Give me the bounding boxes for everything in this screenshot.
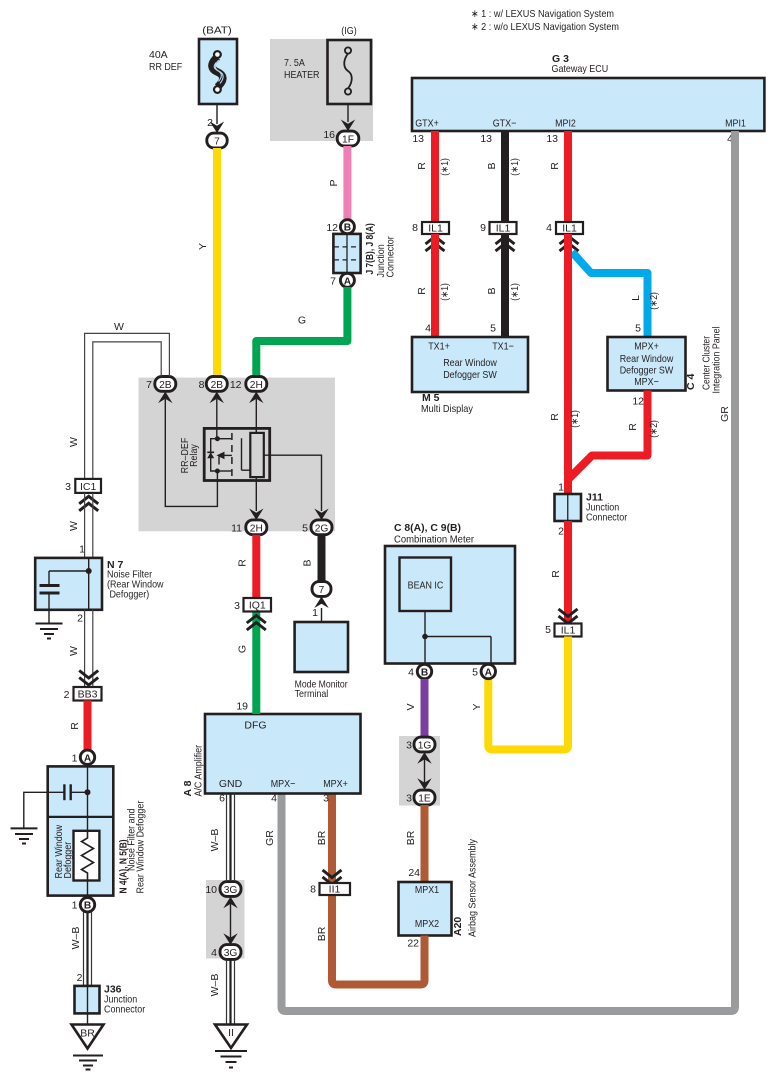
svg-text:Connector: Connector <box>104 1004 146 1016</box>
svg-text:(IG): (IG) <box>341 25 356 37</box>
svg-text:R: R <box>627 423 639 431</box>
pin 6 GND <box>219 793 225 805</box>
ground triangle II <box>215 1025 247 1049</box>
connector 8 IL1 <box>412 222 449 251</box>
pin 2 J36 <box>77 972 83 984</box>
wire B black IL1 to TX1- <box>486 234 521 337</box>
wire G green from junction to relay <box>256 287 347 377</box>
svg-text:L: L <box>630 295 642 301</box>
svg-text:5: 5 <box>490 323 496 335</box>
BEAN IC <box>400 558 452 612</box>
svg-text:1G: 1G <box>418 741 432 752</box>
fuse 7.5A HEATER <box>284 40 371 104</box>
svg-text:R: R <box>549 413 561 421</box>
component A8 A/C Amplifier <box>182 714 361 797</box>
svg-text:19: 19 <box>236 701 248 713</box>
svg-text:GND: GND <box>219 778 243 790</box>
svg-text:IL1: IL1 <box>562 223 577 235</box>
svg-text:MPX2: MPX2 <box>415 918 439 930</box>
wire relay to 5 2G <box>264 455 329 520</box>
svg-text:Defogger SW: Defogger SW <box>620 365 674 377</box>
wire fuse to connector 1F with arrowhead <box>341 104 355 131</box>
relay contact plate and rectangle <box>242 428 264 480</box>
svg-text:22: 22 <box>407 938 419 950</box>
svg-text:Defogger: Defogger <box>62 841 74 878</box>
svg-text:Terminal: Terminal <box>295 688 329 700</box>
svg-text:1: 1 <box>72 752 78 764</box>
svg-text:2H: 2H <box>250 380 263 391</box>
wire arrows between 1G and 1E <box>417 752 431 790</box>
wire L blue to C4 MPX+ <box>572 252 660 337</box>
wire R red GTX+ to IL1 <box>416 131 451 222</box>
connector 5 IL1 lower <box>545 609 581 637</box>
svg-text:A: A <box>344 276 352 287</box>
svg-text:5: 5 <box>302 522 308 534</box>
relay armature dashed line and arrow <box>217 433 232 477</box>
pin 4 MPX- <box>271 793 277 805</box>
svg-text:Combination Meter: Combination Meter <box>394 534 474 546</box>
svg-text:MPX1: MPX1 <box>415 884 439 896</box>
connector oval 10 3G <box>205 882 241 897</box>
pin 13 MPI2 <box>546 133 558 145</box>
svg-text:IL1: IL1 <box>428 223 443 235</box>
capacitor in N7 <box>40 571 60 623</box>
svg-text:MPX−: MPX− <box>271 778 296 790</box>
pin 1 circle B defogger <box>72 898 95 912</box>
svg-text:MPX+: MPX+ <box>634 341 659 353</box>
svg-text:12: 12 <box>632 396 644 408</box>
svg-text:Defogger): Defogger) <box>107 589 149 601</box>
svg-text:4: 4 <box>425 323 431 335</box>
svg-text:Integration Panel: Integration Panel <box>711 327 723 394</box>
svg-text:3: 3 <box>234 600 240 612</box>
wire R red C4 MPX- branch to J11 <box>568 391 660 480</box>
svg-text:W: W <box>68 437 80 447</box>
svg-text:16: 16 <box>323 129 335 141</box>
pin 8 connector oval 2B <box>199 377 228 392</box>
wire 12 2H to relay contact <box>255 399 257 433</box>
component C8(A) C9(B) Combination Meter labels <box>394 522 474 546</box>
gray panel connector pair 3G 3G <box>206 880 245 959</box>
svg-text:B: B <box>344 223 351 234</box>
wire GR gray from MPI1 down and across bottom to A8 MPX- <box>264 131 735 1011</box>
svg-text:(∗2): (∗2) <box>648 420 660 438</box>
svg-text:1: 1 <box>312 607 318 619</box>
svg-text:B: B <box>486 162 498 169</box>
pin 2 N7 <box>77 613 83 625</box>
wire relay contact to 11 2H <box>249 481 263 521</box>
wire internal N7 <box>49 558 92 610</box>
svg-text:3: 3 <box>323 793 329 805</box>
svg-text:BEAN IC: BEAN IC <box>408 580 444 592</box>
component C4 Center Cluster Integration Panel <box>608 327 723 394</box>
svg-text:40A: 40A <box>149 49 168 61</box>
svg-text:W: W <box>68 521 80 531</box>
svg-text:4: 4 <box>211 947 217 959</box>
connector 9 IL1 <box>480 222 516 251</box>
pin 11 connector oval 2H <box>231 520 267 535</box>
pin 5 MPX+ <box>635 323 641 335</box>
svg-text:3G: 3G <box>224 885 238 896</box>
wire G green IQ1 to A8 DFG <box>237 612 257 715</box>
svg-text:B: B <box>486 287 498 294</box>
svg-text:V: V <box>405 703 417 710</box>
svg-text:Rear Window: Rear Window <box>443 357 497 369</box>
svg-text:13: 13 <box>546 133 558 145</box>
svg-text:MPI2: MPI2 <box>555 118 576 130</box>
pin 12 connector oval 2H <box>230 377 267 392</box>
ground symbol under II <box>215 1051 247 1068</box>
svg-text:R: R <box>416 287 428 295</box>
svg-text:MPX−: MPX− <box>634 376 659 388</box>
svg-text:R: R <box>237 559 249 567</box>
svg-text:1F: 1F <box>342 135 354 146</box>
svg-text:II: II <box>228 1027 234 1039</box>
wire R red BB3 to defogger A <box>69 701 88 751</box>
svg-text:MPX+: MPX+ <box>323 778 348 790</box>
svg-text:4: 4 <box>408 667 414 679</box>
capacitor in defogger <box>24 784 88 828</box>
svg-text:1E: 1E <box>418 794 431 805</box>
pin 1 circle A defogger <box>72 750 95 764</box>
wire mode monitor terminal to oval 7 with arrowhead <box>312 597 329 623</box>
wire R red IL1 to TX1+ <box>416 234 451 337</box>
svg-text:P: P <box>328 179 340 186</box>
svg-text:(∗1): (∗1) <box>439 158 451 176</box>
svg-text:1: 1 <box>72 900 78 912</box>
svg-text:1: 1 <box>79 544 85 556</box>
svg-text:W–B: W–B <box>70 927 82 950</box>
wire 7 2B to relay coil return <box>165 399 217 506</box>
svg-text:2B: 2B <box>159 380 172 391</box>
wire W-B from GND to 3G <box>209 794 235 882</box>
svg-text:BR: BR <box>405 830 417 845</box>
fuse 40A RR DEF <box>149 39 237 104</box>
svg-text:GTX+: GTX+ <box>415 118 439 130</box>
connector 8 II1 <box>310 870 350 896</box>
svg-text:BR: BR <box>316 830 328 845</box>
svg-text:BB3: BB3 <box>78 689 98 701</box>
svg-text:5: 5 <box>635 323 641 335</box>
svg-text:7: 7 <box>214 137 220 148</box>
pin 5 circle A <box>472 664 495 678</box>
wire 8 2B to relay coil <box>216 399 218 439</box>
wire R red J11 to IL1 <box>550 521 568 624</box>
svg-text:IL1: IL1 <box>496 223 511 235</box>
svg-text:∗ 1 : w/ LEXUS Navigation Syst: ∗ 1 : w/ LEXUS Navigation System <box>471 8 614 20</box>
svg-text:Defogger SW: Defogger SW <box>443 369 497 381</box>
wire R red IL1 down to J11 <box>549 234 581 494</box>
svg-text:10: 10 <box>205 884 217 896</box>
wire fuse to connector 7 with arrowhead <box>210 104 224 133</box>
wire Y yellow IL1 to combination meter A <box>471 637 568 750</box>
wire internal defogger top <box>85 766 91 830</box>
gray panel relay <box>139 378 336 532</box>
component Combination Meter box <box>385 546 515 664</box>
pin 16 of fuse <box>323 129 335 141</box>
svg-text:2: 2 <box>77 972 83 984</box>
svg-text:11: 11 <box>231 522 242 534</box>
svg-text:A20: A20 <box>452 917 464 936</box>
svg-text:MPI1: MPI1 <box>725 118 746 130</box>
pin 24 MPX1 <box>408 867 420 879</box>
svg-text:8: 8 <box>199 379 205 391</box>
svg-text:RR DEF: RR DEF <box>149 61 182 73</box>
svg-text:2H: 2H <box>250 523 263 534</box>
connector oval 4 3G <box>211 945 241 960</box>
svg-text:5: 5 <box>472 667 478 679</box>
resistor rear window defogger <box>74 831 100 898</box>
chevrons into BB3 <box>79 671 98 686</box>
svg-text:7. 5A: 7. 5A <box>284 57 305 69</box>
relay coil with diode <box>207 436 231 473</box>
svg-text:R: R <box>416 162 428 170</box>
wire P pink <box>328 146 347 220</box>
component N7 Noise Filter <box>35 558 164 610</box>
svg-text:12: 12 <box>326 222 338 234</box>
wire W white IC1 to N7 <box>68 493 93 558</box>
svg-text:5: 5 <box>545 624 551 636</box>
svg-text:3: 3 <box>406 740 412 752</box>
wire B black 5 2G to oval 7 <box>302 535 322 582</box>
svg-text:R: R <box>550 570 562 578</box>
svg-text:9: 9 <box>480 222 486 234</box>
svg-text:4: 4 <box>271 793 277 805</box>
note *1 w/ LEXUS Navigation System <box>471 8 614 20</box>
svg-text:Airbag Sensor Assembly: Airbag Sensor Assembly <box>467 838 479 937</box>
svg-text:6: 6 <box>219 793 225 805</box>
svg-text:IQ1: IQ1 <box>249 600 266 612</box>
svg-text:(∗1): (∗1) <box>439 283 451 301</box>
ECU G3 box <box>412 78 764 131</box>
svg-text:TX1+: TX1+ <box>428 341 450 353</box>
wire BR brown 1E to A20 MPX1 <box>405 805 425 882</box>
wire BR brown A8 MPX+ to A20 MPX2 <box>316 794 425 985</box>
connector 3 IQ1 <box>234 598 271 630</box>
svg-text:8: 8 <box>310 884 316 896</box>
svg-text:3: 3 <box>406 793 412 805</box>
connector oval 1G <box>406 737 435 752</box>
node junction dot <box>422 634 428 640</box>
junction connector pin 7 circle A <box>330 273 354 287</box>
svg-text:3: 3 <box>65 481 71 493</box>
wire W-B 3G to ground <box>209 960 235 1025</box>
component A20 Airbag Sensor Assembly <box>399 838 479 937</box>
svg-text:Rear Window: Rear Window <box>620 353 674 365</box>
svg-text:A/C Amplifier: A/C Amplifier <box>193 744 205 796</box>
component M5 Multi Display <box>412 337 528 415</box>
svg-text:Gateway ECU: Gateway ECU <box>552 63 609 75</box>
svg-text:Rear Window Defogger: Rear Window Defogger <box>135 800 147 893</box>
wire W white N7 to BB3 <box>68 610 93 687</box>
junction connector J11 <box>555 482 628 538</box>
svg-text:W–B: W–B <box>209 974 221 997</box>
svg-text:BR: BR <box>316 926 328 941</box>
svg-text:W–B: W–B <box>209 829 221 852</box>
svg-text:(∗1): (∗1) <box>569 410 581 428</box>
connector oval 1F <box>337 131 359 146</box>
svg-text:DFG: DFG <box>244 720 266 732</box>
svg-text:W: W <box>114 321 124 333</box>
wire J36 to ground BR <box>87 1013 89 1025</box>
svg-text:12: 12 <box>230 379 242 391</box>
svg-text:2: 2 <box>64 689 70 701</box>
pin 19 DFG <box>236 701 248 713</box>
svg-text:(BAT): (BAT) <box>202 25 232 37</box>
svg-text:24: 24 <box>408 867 420 879</box>
pin 13 GTX+ <box>412 133 424 145</box>
label (BAT) <box>202 25 232 37</box>
ground symbol under BR <box>73 1056 103 1070</box>
pin 1 N7 <box>79 544 85 556</box>
connector oval 7 mode monitor <box>312 582 331 597</box>
svg-text:4: 4 <box>546 222 552 234</box>
wire arrows between 3G and 3G <box>223 897 237 945</box>
pin 4 circle B <box>408 664 432 678</box>
svg-text:7: 7 <box>146 379 152 391</box>
svg-text:BR: BR <box>80 1028 95 1040</box>
ground symbol left of defogger <box>11 828 38 843</box>
svg-text:Y: Y <box>197 243 209 250</box>
arrowhead into 8 2B <box>210 392 224 404</box>
svg-text:II1: II1 <box>329 884 341 896</box>
svg-text:GR: GR <box>719 406 731 422</box>
connector 3 IC1 <box>65 479 101 511</box>
pin 12 MPX- <box>632 396 644 408</box>
junction connector J7(B) J8(A) pin 12 circle B <box>326 220 354 234</box>
svg-text:GTX−: GTX− <box>493 118 517 130</box>
svg-text:A: A <box>84 753 92 764</box>
svg-text:TX1−: TX1− <box>492 341 514 353</box>
label (IG) <box>341 25 356 37</box>
ground symbol under N7 <box>36 624 63 639</box>
arrowhead into 7 2B <box>158 392 172 404</box>
svg-text:2G: 2G <box>315 523 329 534</box>
wire R red 11 2H to IQ1 <box>237 535 257 598</box>
pin 7 connector oval 2B <box>146 377 176 392</box>
wire V violet B to 1G <box>405 679 425 738</box>
connector oval 7 <box>207 133 227 148</box>
connector 2 BB3 <box>64 687 102 701</box>
pin 13 GTX- <box>480 133 492 145</box>
svg-text:C 4: C 4 <box>685 374 697 391</box>
wire B black GTX- to IL1 <box>486 131 521 222</box>
component Mode Monitor Terminal <box>295 622 348 700</box>
connector 4 IL1 <box>546 222 583 251</box>
svg-text:C 8(A), C 9(B): C 8(A), C 9(B) <box>394 522 461 534</box>
svg-text:(∗1): (∗1) <box>509 158 521 176</box>
svg-text:∗ 2 : w/o LEXUS Navigation Sys: ∗ 2 : w/o LEXUS Navigation System <box>471 21 619 33</box>
svg-text:R: R <box>549 162 561 170</box>
svg-text:7: 7 <box>319 585 325 596</box>
svg-text:Relay: Relay <box>188 443 200 466</box>
pin 3 MPX+ <box>323 793 329 805</box>
svg-text:7: 7 <box>330 276 336 288</box>
svg-text:IL1: IL1 <box>561 625 576 637</box>
svg-text:Multi Display: Multi Display <box>421 403 474 415</box>
connector oval 1E <box>406 790 435 805</box>
svg-text:Y: Y <box>471 703 483 710</box>
svg-text:B: B <box>84 901 91 912</box>
svg-text:3G: 3G <box>224 948 238 959</box>
wire W-B defogger B to J36 <box>70 912 92 986</box>
svg-text:(∗2): (∗2) <box>648 292 660 310</box>
wire W white from 7 2B up-left-down to IC1 <box>68 321 169 479</box>
svg-text:2: 2 <box>558 526 564 538</box>
svg-text:R: R <box>69 722 81 730</box>
svg-text:13: 13 <box>412 133 424 145</box>
svg-text:2B: 2B <box>211 380 224 391</box>
svg-text:13: 13 <box>480 133 492 145</box>
pin 4 TX1+ <box>425 323 431 335</box>
pin 5 TX1- <box>490 323 496 335</box>
wire Y yellow <box>197 148 217 377</box>
component N4(A) N5(B) Noise Filter and Rear Window Defogger <box>48 766 147 895</box>
svg-text:B: B <box>421 668 428 679</box>
relay RR-DEF box <box>179 428 270 480</box>
svg-text:G: G <box>298 315 306 327</box>
svg-text:G: G <box>237 645 249 653</box>
gray panel connector pair 1G 1E <box>399 736 440 806</box>
svg-text:GR: GR <box>264 830 276 846</box>
svg-text:A: A <box>485 668 493 679</box>
svg-text:W: W <box>68 646 80 656</box>
junction connector J36 <box>75 984 146 1016</box>
gray panel IG fuse <box>270 39 373 141</box>
junction connector J7(B) J8(A) body <box>333 223 396 277</box>
pin 5 connector oval 2G <box>302 520 332 535</box>
wire internal BEAN IC to pins <box>425 611 491 664</box>
pin 2 of fuse <box>207 117 213 129</box>
arrowhead into 12 2H <box>249 392 263 404</box>
svg-text:1: 1 <box>558 482 564 494</box>
svg-text:2: 2 <box>77 613 83 625</box>
wire R red MPI2 to IL1 <box>549 131 568 222</box>
ground triangle BR <box>72 1025 104 1049</box>
svg-text:Connector: Connector <box>586 512 628 524</box>
pin 4 MPI1 <box>727 133 733 145</box>
svg-text:HEATER: HEATER <box>284 69 320 81</box>
svg-text:(∗1): (∗1) <box>509 283 521 301</box>
svg-text:8: 8 <box>412 222 418 234</box>
ECU G3 labels <box>552 53 609 75</box>
svg-text:IC1: IC1 <box>80 481 97 493</box>
note *2 w/o LEXUS Navigation System <box>471 21 619 33</box>
svg-text:B: B <box>302 559 314 566</box>
pin 22 MPX2 <box>407 938 419 950</box>
svg-text:Connector: Connector <box>385 236 397 278</box>
